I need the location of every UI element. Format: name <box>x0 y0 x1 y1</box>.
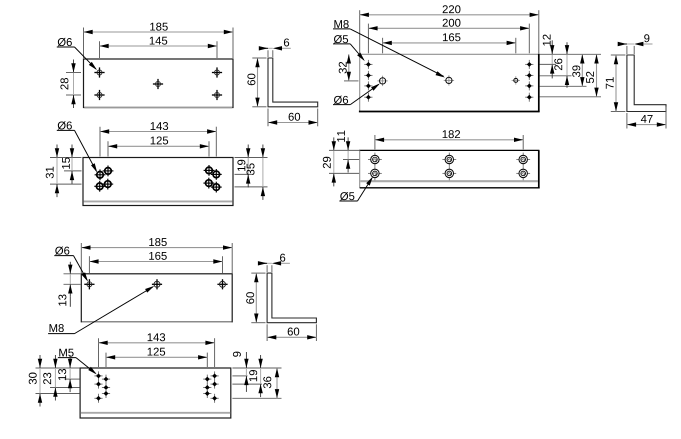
extension line P2 31 bottom <box>50 183 82 185</box>
hole P1 bottom-right <box>212 94 222 96</box>
label M8 on P5 <box>50 324 58 332</box>
dimension 47 (horizontal) <box>627 124 666 126</box>
dimension 125 (horizontal) <box>108 145 209 147</box>
hole P3 round Ø6 <box>377 80 387 82</box>
label Ø6 on P1 <box>58 38 66 46</box>
dimension 29 (vertical, outside arrows) <box>333 150 335 173</box>
dimension 143 (horizontal) <box>99 342 215 344</box>
extension line A1 60h right <box>317 109 319 127</box>
hole P1 top-left <box>94 72 104 74</box>
extension line P2 15 bottom <box>64 170 82 172</box>
dimension 60 (horizontal) <box>268 122 318 124</box>
hole P6 B1 <box>102 378 110 380</box>
extension line P3 right r3 <box>540 85 587 87</box>
extension line P6 9 bottom <box>232 375 247 377</box>
dimension 32 (vertical) <box>348 54 350 81</box>
extension line A2 47 left <box>626 113 628 129</box>
hole P3 right col 2 <box>525 74 533 76</box>
extension line P2 143 left <box>99 127 101 157</box>
hole P1 center <box>153 83 163 85</box>
extension line P2 left top <box>50 157 82 159</box>
dimension 185 (horizontal) <box>81 247 232 249</box>
dimension 71 (vertical) <box>615 55 617 112</box>
hole P1 bottom-left <box>94 94 104 96</box>
hole P3 left col 3 <box>364 85 372 87</box>
extension line A3 t6 right <box>271 265 273 272</box>
leader M5 to hole <box>76 358 95 374</box>
plate P4 top edge <box>359 149 539 151</box>
dimension 13 (vertical, outside arrows) <box>69 274 71 285</box>
dimension 12 (vertical, outside arrows) <box>551 54 553 64</box>
hole P3 left col 2 <box>364 74 372 76</box>
extension line P1 145 right <box>216 41 218 58</box>
leader M8 to center hole <box>350 29 443 76</box>
extension line P2 143 right <box>215 127 217 157</box>
hole P1 top-right <box>212 72 222 74</box>
extension line A1 t6 right <box>272 50 274 57</box>
dimension 30 (vertical, outside arrows) <box>39 368 41 394</box>
hole P4 r2c2 <box>454 172 456 174</box>
extension line P3 200 right <box>528 24 530 54</box>
extension line P4 182 right <box>522 135 524 149</box>
extension line P6 19 bottom <box>232 383 262 385</box>
L-profile A1 (60x60x6 side view) <box>268 58 318 107</box>
extension line P2 125 left <box>107 141 109 156</box>
hole P6 A1 <box>94 375 102 377</box>
hole P6 B'3 <box>203 393 211 395</box>
dimension 28 (vertical, outside arrows) <box>73 73 75 96</box>
extension line A3 60h right <box>315 324 317 341</box>
dimension 19 (vertical, outside arrows) <box>247 158 249 175</box>
dimension 11 (vertical, outside arrows) <box>347 150 349 159</box>
extension line P1 28 bottom <box>66 94 81 96</box>
hole P4 r2c1 <box>379 172 381 174</box>
extension line P3 32 bottom <box>344 80 359 82</box>
extension line A3 60h left <box>266 324 268 341</box>
dimension 200 (horizontal) <box>368 27 529 29</box>
dimension 185 (horizontal) <box>84 31 234 33</box>
hole P2 L2b <box>94 185 105 187</box>
dimension 9 (thickness) <box>627 43 634 45</box>
extension line A3 60v top <box>251 272 265 274</box>
hole P3 right col 1 <box>525 63 533 65</box>
extension line P3 right r2 <box>540 75 572 77</box>
hole P6 A'1 <box>211 375 219 377</box>
extension line P2 19 bottom <box>235 173 253 175</box>
dimension 165 (horizontal) <box>89 261 222 263</box>
dimension 13 tail extension <box>69 296 71 307</box>
dimension 60 (vertical) <box>255 273 257 323</box>
label Ø5 on P4 <box>340 192 348 200</box>
plate P3 left edge <box>359 54 361 111</box>
plate P2 (magnet plate 143 hole pattern, top view) <box>83 158 233 206</box>
extension line P5 13 bottom <box>64 283 81 285</box>
dimension 145 (horizontal) <box>100 45 218 47</box>
extension line P6 right top <box>232 367 281 369</box>
hole P2 L2a <box>102 183 113 185</box>
dimension 60 (horizontal) <box>267 336 316 338</box>
hole P4 r2c3 <box>528 172 530 174</box>
extension line P4 182 left <box>374 135 376 149</box>
dimension 6 (thickness, lower) <box>267 262 272 264</box>
hole P2 R2b <box>211 186 222 188</box>
dimension 182 (horizontal) <box>375 139 523 141</box>
extension line P6 125 left <box>105 353 107 367</box>
hole P3 left col 4 <box>364 96 372 98</box>
extension line P1 145 left <box>99 41 101 58</box>
plate P4 fold line <box>360 180 538 182</box>
extension line P3 right r1 <box>540 63 557 65</box>
extension line A2 71 bottom <box>611 111 626 113</box>
extension line P5 185 right <box>231 243 233 273</box>
hole P4 r1c3 <box>528 159 530 161</box>
leader M8 to center hole <box>75 287 153 334</box>
hole P4 r1c2 <box>454 159 456 161</box>
dimension 35 (vertical, outside arrows) <box>262 158 264 187</box>
extension line P6 30 bottom <box>36 393 80 395</box>
plate P2 fold line <box>84 200 233 202</box>
extension line A3 60v bottom <box>251 322 265 324</box>
extension line A1 t6 left <box>267 50 269 57</box>
extension line P6 143 right <box>214 338 216 367</box>
extension line P3 165 right <box>515 38 517 54</box>
extension line P2 35 bottom <box>235 186 268 188</box>
label Ø6 on P2 <box>58 121 66 129</box>
extension line P2 125 right <box>208 141 210 156</box>
hole P5 left <box>84 283 94 285</box>
dimension 125 (horizontal) <box>106 356 207 358</box>
hole P4 r1c1 <box>379 159 381 161</box>
dimension 165 (horizontal) <box>383 42 516 44</box>
leader Ø5 to top hole <box>350 44 363 60</box>
label Ø6 on P3 <box>334 96 342 104</box>
dimension 143 (horizontal) <box>100 131 216 133</box>
extension line A2 71 top <box>611 54 626 56</box>
hole P5 right <box>217 283 227 285</box>
label Ø5 on P3 <box>334 35 342 43</box>
plate P4 left edge <box>359 150 361 187</box>
plate P6 fold line <box>81 412 231 414</box>
plate P3 bottom edge <box>359 111 540 113</box>
hole P6 A'2 <box>211 383 219 385</box>
extension line P1 28 top <box>66 72 81 74</box>
dimension 9 (vertical, outside arrows) <box>245 368 247 376</box>
hole P2 R2a <box>203 182 214 184</box>
hole P6 B3 <box>102 393 110 395</box>
extension line P5 13 top <box>64 273 81 275</box>
leader Ø6 to round hole <box>350 85 378 105</box>
dimension 39 (vertical) <box>581 54 583 86</box>
hole P6 A2 <box>94 383 102 385</box>
extension line P4 11 bottom <box>343 159 359 161</box>
dimension 15 (vertical, outside arrows) <box>71 158 73 171</box>
hole P3 right col 4 <box>525 96 533 98</box>
plate P1 (armature plate 185x60, top view) <box>84 59 234 108</box>
label M8 on P3 <box>334 20 342 28</box>
extension line A2 t9 left <box>626 46 628 54</box>
extension line P3 200 left <box>367 24 369 54</box>
hole P3 left col 1 <box>364 63 372 65</box>
dimension 19 (vertical, outside arrows) <box>260 368 262 384</box>
label M5 on P6 <box>59 349 67 357</box>
leader Ø6 to hole <box>75 47 96 69</box>
plate P3 (back plate 220x71, top view) <box>360 54 539 111</box>
extension line A3 t6 left <box>266 265 268 272</box>
plate P5 bottom edge highlight <box>82 321 232 323</box>
dimension 52 (vertical) <box>596 54 598 97</box>
extension line P3 right top <box>540 53 602 55</box>
plate P4 bottom edge <box>360 187 540 189</box>
plate P3 top edge <box>360 53 539 55</box>
extension line P3 220 left <box>359 10 361 53</box>
extension line P5 165 left <box>88 256 90 273</box>
label Ø6 on P5 <box>55 246 63 254</box>
hole P2 R1a <box>204 169 215 171</box>
L-profile A3 (60x60x6 side view, lower group) <box>267 273 316 323</box>
hole P2 R1b <box>211 173 222 175</box>
hole P3 center M8 <box>444 79 454 81</box>
extension line P2 right top <box>235 157 268 159</box>
dimension 23 (vertical, outside arrows) <box>54 368 56 388</box>
extension line P1 185 left <box>83 28 85 59</box>
extension line P3 220 right <box>538 10 540 53</box>
extension line P4 29 bottom <box>329 172 359 174</box>
hole P3 right small <box>512 79 520 81</box>
extension line P5 185 left <box>80 243 82 273</box>
extension line P6 125 right <box>206 353 208 367</box>
dimension 26 (vertical, outside arrows) <box>566 54 568 76</box>
hole P6 A3 <box>94 397 102 399</box>
dimension 36 (vertical) <box>276 368 278 398</box>
dimension 220 (horizontal) <box>360 14 539 16</box>
extension line A2 47 right <box>665 107 667 129</box>
extension line A1 60v top <box>252 57 266 59</box>
dimension 60 (vertical) <box>257 58 259 107</box>
leader Ø6 to hole <box>74 256 87 280</box>
leader Ø6 to hole cluster <box>75 130 97 171</box>
hole P2 L1a <box>103 170 114 172</box>
extension line P1 185 right <box>232 28 234 59</box>
extension line P3 right r4 <box>540 96 602 98</box>
leader Ø5 to hole <box>358 179 372 201</box>
hole P6 B'1 <box>203 378 211 380</box>
plate P6 (magnet plate lower group, top view) <box>80 368 231 418</box>
extension line P5 165 right <box>222 256 224 273</box>
plate P5 (armature plate 185, lower group top view) <box>81 274 232 322</box>
hole P6 B2 <box>102 387 110 389</box>
plate P4 right edge <box>538 150 540 188</box>
extension line P6 13 bottom <box>65 378 80 380</box>
extension line P6 143 left <box>98 338 100 367</box>
extension line P6 23 bottom <box>50 387 80 389</box>
plate P3 right edge <box>538 54 540 112</box>
dimension 13 (vertical, outside arrows) <box>69 368 71 379</box>
dimension 6 (thickness) <box>268 47 273 49</box>
hole P3 right col 3 <box>525 85 533 87</box>
plate P4 (strike plate 182 hole pattern, top view) <box>360 150 539 187</box>
extension line A1 60h left <box>267 109 269 127</box>
hole P6 B'2 <box>203 387 211 389</box>
dimension 31 (vertical, outside arrows) <box>56 158 58 185</box>
extension line P4 top left <box>329 149 359 151</box>
plate P1 bottom edge highlight <box>84 107 232 109</box>
hole P5 center <box>152 283 162 285</box>
extension line A2 t9 right <box>633 46 635 54</box>
extension line P3 165 left <box>382 38 384 54</box>
L-profile A2 (71x47x9 side view) <box>627 55 666 112</box>
extension line P6 left top <box>36 367 80 369</box>
hole P6 A'3 <box>211 397 219 399</box>
extension line A1 60v bottom <box>252 106 266 108</box>
hole P2 L1b <box>95 174 106 176</box>
extension line P6 36 bottom <box>232 397 281 399</box>
